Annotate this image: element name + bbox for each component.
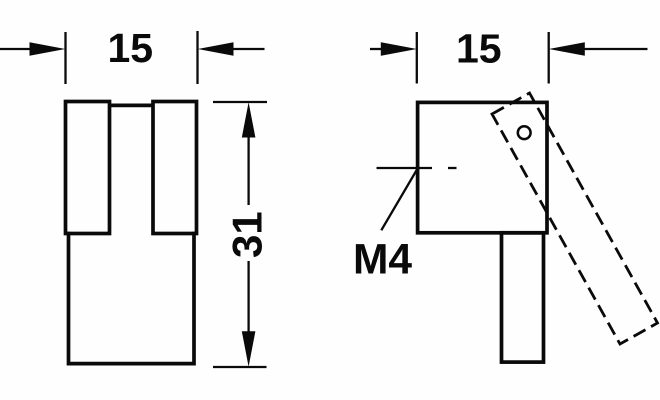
dim15 right: right arrow tail: [584, 48, 648, 50]
right view: hole centre line short dash: [448, 167, 457, 169]
dim15 left: left extension line: [64, 32, 66, 84]
svg-text:15: 15: [456, 26, 502, 72]
svg-text:15: 15: [107, 25, 153, 71]
dim31: top extension line: [213, 101, 267, 103]
right view: hole in rotated tongue: [518, 126, 531, 139]
right view: leader line from M4 label: [381, 169, 417, 231]
dim15 left: right arrow tail: [233, 48, 265, 50]
dim15 right: left arrow tail: [370, 48, 383, 50]
right view: hole centre line long segment: [377, 167, 433, 169]
dim31: up arrowhead: [242, 102, 256, 137]
dim15 left: right arrowhead: [198, 42, 234, 56]
dim31: down arrowhead: [242, 331, 256, 367]
dim15 left: left arrowhead: [30, 42, 66, 56]
dim31: lower dimension line segment: [247, 261, 249, 333]
svg-text:M4: M4: [353, 236, 412, 283]
left view: right prong outline: [153, 102, 197, 234]
left view: tongue edge line between prongs: [108, 104, 155, 108]
dim15 left: left arrow tail: [0, 48, 32, 50]
dim15 right: right extension line: [548, 32, 550, 84]
right view: stem outline: [502, 233, 544, 362]
dim15 right: right arrowhead: [549, 42, 585, 56]
dim15 left: right extension line: [196, 31, 198, 84]
svg-text:31: 31: [224, 211, 271, 258]
dim15 right: left extension line: [416, 32, 418, 84]
dim31: upper dimension line segment: [247, 134, 249, 205]
left view: left prong outline: [66, 102, 110, 234]
dim31: bottom extension line: [213, 366, 267, 368]
dim15 right: left arrowhead: [381, 42, 417, 56]
left view: body outline: [69, 232, 195, 364]
right view: head square outline: [418, 102, 547, 232]
right view: rotated tongue (dashed phantom outline): [492, 93, 658, 344]
